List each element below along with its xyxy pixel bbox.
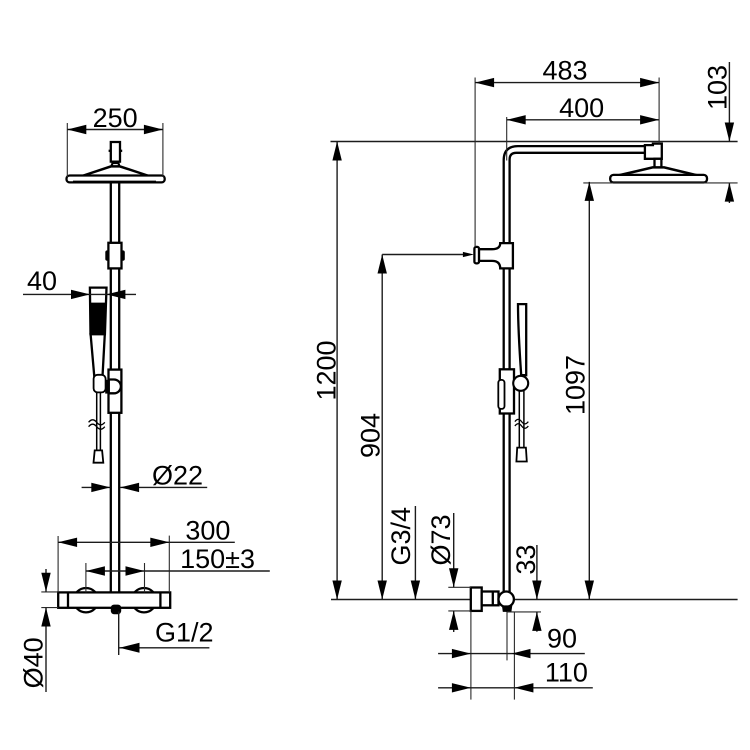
svg-text:400: 400 (559, 93, 604, 123)
svg-text:904: 904 (356, 413, 386, 458)
svg-text:150±3: 150±3 (180, 544, 255, 574)
svg-text:G1/2: G1/2 (155, 618, 214, 648)
svg-text:Ø73: Ø73 (426, 514, 456, 565)
svg-text:300: 300 (185, 516, 230, 546)
svg-text:110: 110 (545, 658, 588, 688)
svg-text:40: 40 (27, 266, 57, 296)
svg-text:103: 103 (703, 65, 733, 110)
svg-text:Ø22: Ø22 (152, 461, 203, 491)
svg-text:483: 483 (542, 56, 587, 86)
svg-text:1097: 1097 (561, 355, 591, 415)
svg-text:250: 250 (93, 103, 138, 133)
svg-text:G3/4: G3/4 (386, 507, 416, 566)
svg-text:90: 90 (547, 624, 577, 654)
svg-text:Ø40: Ø40 (19, 637, 49, 688)
svg-text:33: 33 (511, 545, 541, 575)
svg-text:1200: 1200 (312, 340, 342, 400)
